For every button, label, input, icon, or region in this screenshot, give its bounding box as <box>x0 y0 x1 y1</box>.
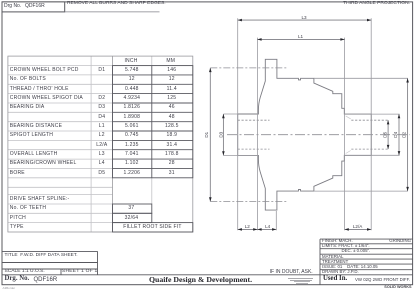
note third angle projection <box>343 2 410 7</box>
extension line: right bearing shoulder <box>344 38 346 231</box>
fine print <box>288 277 313 280</box>
extension lines: D2 spigot dia <box>314 78 408 191</box>
table texts <box>0 0 416 1</box>
dimension D3 left bearing dia <box>218 114 224 155</box>
if in doubt ask <box>270 270 313 275</box>
note remove burrs <box>67 2 166 7</box>
dimension D5 bore <box>382 120 389 149</box>
dimension L2 spigot length <box>238 224 258 231</box>
part outline: differential housing section <box>238 59 372 210</box>
extension line: flange face for L4 <box>275 211 277 230</box>
extension line: right end face <box>370 18 372 230</box>
extension line: left bearing shoulder <box>256 38 258 231</box>
left title block text <box>5 254 78 259</box>
extension lines: D4 bearing dia <box>371 114 399 155</box>
solid works <box>384 286 411 290</box>
dimension D1 crown wheel bolt PCD <box>204 68 211 202</box>
dimension L4 bearing to crown wheel <box>257 224 276 231</box>
dimension L3 overall length <box>238 15 372 22</box>
bore chamfer lines <box>346 116 351 154</box>
extension lines: D1 bolt PCD dash-dot <box>210 68 287 202</box>
dimension D4 right bearing dia <box>393 114 400 155</box>
hidden bore lines D5 <box>238 120 389 149</box>
dimension L1 bearing distance <box>257 34 344 41</box>
company name <box>149 276 252 284</box>
extension lines: D3 bearing dia <box>223 114 258 155</box>
border note <box>3 287 16 290</box>
right block rows <box>322 239 353 243</box>
dimension L2/A <box>345 224 372 231</box>
centerline <box>227 134 410 136</box>
extension line: left end face <box>237 18 239 230</box>
dimension D2 crown wheel spigot dia <box>402 78 409 191</box>
